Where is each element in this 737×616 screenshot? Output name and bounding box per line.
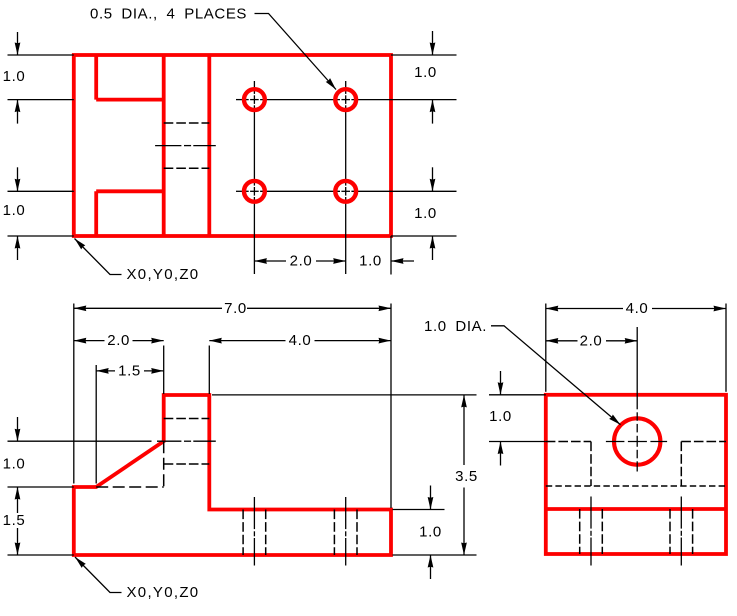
top view dim 2.0 line right bbox=[316, 260, 346, 262]
front dim 1.5 right bbox=[144, 370, 164, 372]
top view: hidden hole line lower bbox=[164, 167, 210, 169]
front dim 1.5 left bbox=[96, 370, 115, 372]
top view: hidden hole line upper bbox=[164, 122, 210, 124]
top view dim 1.0 lower-right arrow down bbox=[432, 167, 434, 191]
front ext line x0 bbox=[73, 304, 75, 484]
top view dim 1.0 upper-left arrow up bbox=[17, 100, 19, 124]
front dim 1.5 left arrow up bbox=[17, 487, 19, 513]
top view dim 1.0 upper-right arrow down bbox=[432, 31, 434, 55]
side view: hidden notch line right bbox=[681, 441, 726, 443]
top view ext line left top bbox=[8, 54, 74, 56]
leader: X0,Y0,Z0 (top view) bbox=[75, 239, 122, 275]
side ext line center-left bbox=[489, 441, 546, 443]
side view: hidden notch line left bbox=[546, 441, 591, 443]
front ext line top edge right bbox=[212, 394, 477, 396]
svg-text:1.0: 1.0 bbox=[359, 252, 382, 269]
front ext line left center bbox=[8, 440, 152, 442]
svg-text:1.0: 1.0 bbox=[414, 205, 437, 222]
top view: hole BR (0.5 DIA) bbox=[335, 181, 356, 202]
top view: hole TL (0.5 DIA) bbox=[244, 89, 265, 110]
top view: hole TR (0.5 DIA) bbox=[335, 89, 356, 110]
top view: lower notch edge bbox=[96, 189, 164, 193]
svg-text:1.0: 1.0 bbox=[3, 202, 26, 219]
front view: base hole centerline left bbox=[253, 497, 255, 529]
side view: hidden notch vertical left bbox=[590, 442, 592, 487]
side view: outline (red) bbox=[546, 395, 726, 554]
svg-text:X0,Y0,Z0: X0,Y0,Z0 bbox=[127, 584, 200, 601]
side view: circle centerline horizontal bbox=[606, 441, 625, 443]
svg-text:2.0: 2.0 bbox=[107, 332, 130, 349]
top view: vertical edge at x=0.5 upper bbox=[94, 55, 98, 100]
side view: base hole centerline left bbox=[590, 497, 592, 529]
top view: vertical centerline left hole column bbox=[253, 81, 255, 94]
front dim 3.5 bottom bbox=[463, 488, 465, 556]
svg-text:4.0: 4.0 bbox=[289, 332, 312, 349]
svg-text:1.0: 1.0 bbox=[414, 64, 437, 81]
svg-text:1.0: 1.0 bbox=[3, 68, 26, 85]
side dim 4.0 right bbox=[652, 308, 726, 310]
front view: hidden vertical under slope bbox=[163, 441, 165, 487]
leader line: 1.0 DIA bbox=[491, 326, 621, 425]
front view: hidden base hole edge x=334.4 bbox=[333, 510, 335, 556]
side ext line top-left bbox=[489, 394, 546, 396]
svg-text:1.5: 1.5 bbox=[118, 362, 141, 379]
top view: hole BL (0.5 DIA) bbox=[244, 181, 265, 202]
top view ext line right top bbox=[391, 54, 457, 56]
side ext line R bbox=[725, 304, 727, 392]
top view dim 1.0 lower-right arrow up bbox=[432, 236, 434, 260]
top view ext line right bottom bbox=[391, 235, 457, 237]
top view: hole centerline (dash-dot) bbox=[155, 145, 181, 147]
side ext line L bbox=[545, 304, 547, 392]
side view: hidden notch vertical right bbox=[680, 442, 682, 487]
front view: hole centerline (dash-dot) bbox=[157, 440, 181, 442]
front view: base hole centerline right bbox=[345, 497, 347, 529]
side view: hidden base hole edge x=602.3 bbox=[601, 509, 603, 554]
side dim 1.0 arrow up bbox=[500, 442, 502, 466]
top view: centerline through upper holes bbox=[236, 99, 249, 101]
leader: X0,Y0,Z0 (front view) bbox=[75, 557, 122, 593]
top view: vertical edge at x=3.0 bbox=[207, 55, 211, 236]
svg-text:1.5: 1.5 bbox=[3, 512, 26, 529]
top view ext line bottom-right corner bbox=[390, 236, 392, 275]
svg-text:7.0: 7.0 bbox=[224, 300, 247, 317]
side dim 2.0 left bbox=[546, 340, 578, 342]
top view dim 2.0 line left bbox=[254, 260, 286, 262]
svg-text:1.0: 1.0 bbox=[419, 524, 442, 541]
side dim 1.0 arrow down bbox=[500, 371, 502, 395]
svg-text:3.5: 3.5 bbox=[455, 468, 478, 485]
side view: hidden base hole edge x=670.0 bbox=[669, 509, 671, 554]
front view: outline (red) bbox=[74, 395, 391, 555]
front ext line x3 bbox=[208, 346, 210, 395]
top view ext line left bottom bbox=[8, 235, 74, 237]
front dim 7.0 right bbox=[247, 307, 391, 309]
front dim 1.5 left arrow down bbox=[17, 528, 19, 555]
svg-text:2.0: 2.0 bbox=[290, 253, 313, 270]
side view: circle centerline vertical bbox=[636, 327, 638, 409]
front view: hidden hole bottom bbox=[164, 463, 210, 465]
svg-text:4.0: 4.0 bbox=[626, 300, 649, 317]
front ext line left bottom bbox=[8, 554, 74, 556]
top view dim 1.0 bottom outside arrow bbox=[391, 260, 414, 262]
front dim 4.0 left bbox=[209, 340, 285, 342]
svg-text:X0,Y0,Z0: X0,Y0,Z0 bbox=[127, 266, 200, 283]
side dim 2.0 right bbox=[606, 340, 637, 342]
side view: hole circle (1.0 DIA) bbox=[614, 418, 660, 464]
front ext line bottom right bbox=[393, 554, 477, 556]
front dim 1.0 right arrow down bbox=[430, 486, 432, 510]
top view dim 1.0 lower-left arrow down bbox=[17, 167, 19, 191]
front dim 1.0 right arrow up bbox=[430, 555, 432, 579]
side view: base hole centerline right bbox=[680, 497, 682, 529]
side view: hidden base hole edge x=579.7 bbox=[579, 509, 581, 554]
side dim 4.0 left bbox=[546, 308, 623, 310]
svg-text:2.0: 2.0 bbox=[580, 332, 603, 349]
top view: outer outline (red) bbox=[74, 55, 391, 236]
top view: upper notch edge bbox=[96, 98, 164, 102]
front view: hidden hole top bbox=[164, 418, 210, 420]
side view: step edge (red) bbox=[546, 507, 726, 511]
svg-text:1.0: 1.0 bbox=[489, 408, 512, 425]
front dim 4.0 right bbox=[315, 340, 392, 342]
top view dim 1.0 upper-left arrow down bbox=[17, 32, 19, 55]
front dim 1.0 left arrow down bbox=[17, 417, 19, 441]
top view: vertical edge at x=0.5 lower bbox=[94, 191, 98, 236]
front view: hidden base hole edge x=243.1 bbox=[242, 510, 244, 556]
front dim 2.0 right bbox=[133, 340, 164, 342]
svg-text:1.0: 1.0 bbox=[3, 456, 26, 473]
front dim 2.0 left bbox=[74, 340, 105, 342]
front view: hidden base hole edge x=265.7 bbox=[265, 510, 267, 556]
svg-text:0.5 DIA., 4 PLACES: 0.5 DIA., 4 PLACES bbox=[90, 6, 247, 23]
front ext line step right bbox=[393, 509, 445, 511]
top view dim 1.0 lower-left arrow up bbox=[17, 236, 19, 260]
top view: centerline through lower holes bbox=[236, 190, 249, 192]
top view: vertical edge at x=2.0 bbox=[162, 55, 166, 236]
top view: vertical centerline right hole column bbox=[345, 81, 347, 94]
front dim 3.5 top bbox=[463, 395, 465, 465]
front ext line x05 bbox=[95, 365, 97, 484]
front view: hidden edge at y=1.5 bbox=[96, 486, 164, 488]
front ext line left sb bbox=[8, 486, 74, 488]
side view: hidden base hole edge x=692.6 bbox=[692, 509, 694, 554]
side view: hidden edge y=1.5 bbox=[546, 485, 726, 487]
leader line: 0.5 DIA bbox=[255, 14, 337, 90]
top view ext line left n1 bbox=[8, 99, 74, 101]
top view ext line left n2 bbox=[8, 190, 74, 192]
front dim 7.0 left bbox=[74, 307, 222, 309]
svg-text:1.0 DIA.: 1.0 DIA. bbox=[424, 318, 487, 335]
top view dim 1.0 upper-right arrow up bbox=[432, 100, 434, 124]
front view: hidden base hole edge x=357.0 bbox=[356, 510, 358, 556]
front ext line x2 bbox=[163, 346, 165, 395]
front ext line x7 bbox=[390, 304, 392, 509]
